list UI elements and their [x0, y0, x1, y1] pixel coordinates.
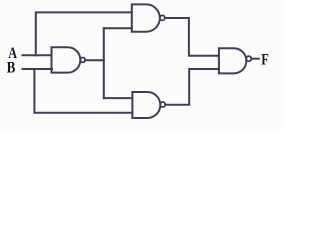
- wire F output: [251, 58, 259, 60]
- bubble U4: [246, 56, 251, 61]
- nand U2 body: [132, 4, 160, 31]
- wire B input: [23, 68, 53, 70]
- svg-text:B: B: [7, 60, 16, 77]
- wire U1 output: [85, 59, 104, 61]
- wire B branch to U3 lower input: [34, 69, 132, 113]
- wire U3 output to U4 lower input: [165, 69, 219, 105]
- nand U4 body: [219, 48, 246, 73]
- wire U2 output to U4 upper input: [165, 18, 219, 56]
- bubble U1: [80, 58, 85, 63]
- wire to U2 lower input: [104, 27, 132, 29]
- nand U1 body: [52, 47, 81, 72]
- wire A input: [23, 54, 52, 56]
- nand U3 body: [132, 92, 160, 118]
- bubble U3: [160, 102, 165, 107]
- wire to U3 upper input: [104, 97, 133, 99]
- bubble U2: [160, 15, 165, 20]
- wire mid vertical: [103, 28, 105, 98]
- svg-text:F: F: [261, 52, 269, 69]
- wire A branch to U2 upper input: [36, 12, 132, 55]
